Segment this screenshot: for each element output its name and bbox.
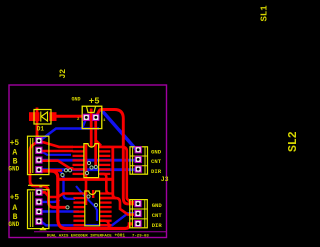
svg-text:GND: GND (152, 202, 163, 209)
IC U2 pins left (73, 192, 84, 226)
svg-text:A: A (12, 204, 17, 213)
svg-text:DIR: DIR (151, 168, 162, 175)
wire: blue SV2 pad4 to J3 lower CNT pad (41, 213, 134, 225)
connector X1 (power) outline (82, 106, 102, 128)
wire: red SV1 pad3 to IC1 pin6 (41, 161, 73, 169)
svg-text:+5: +5 (89, 96, 100, 106)
svg-text:GND: GND (8, 221, 19, 228)
wire: blue horizontal SV1 pad4 to J3 DIR (40, 168, 136, 171)
wire: red short vertical in IC2 (92, 190, 94, 198)
wire: red +5 trace from power pad1 around right side to J4 GND pad (96, 110, 134, 204)
wire: red GND inner arc from SV1 box corner (30, 142, 66, 208)
svg-text:+001: +001 (115, 233, 126, 238)
wire: red vertical power pad2 to IC1 notch (90, 109, 93, 148)
wire: blue SV1 pad2 to IC1 pin3 (41, 151, 71, 155)
connector SV2 outline (28, 190, 49, 229)
wire: blue bottom-layer trace from SV1 pad1 to power connector (40, 129, 99, 141)
wire: red vertical power pad1 into IC1 (96, 119, 101, 166)
wire: red vertical through IC bodies (85, 144, 88, 205)
svg-text:SL1: SL1 (260, 5, 270, 22)
board outline (9, 85, 167, 238)
wire: red SV1 pad4 left stub (41, 169, 62, 172)
connector X1 notch (87, 107, 96, 113)
wire: blue SV2 pad3 right (41, 210, 79, 212)
connector J3 upper pads (135, 147, 141, 173)
connector X1 pad 1 (93, 114, 99, 120)
svg-text:7-29-03: 7-29-03 (132, 234, 149, 238)
wire: red SV1 pad1 to IC1 pin1 (40, 141, 73, 147)
silk line between connectors (28, 184, 50, 186)
svg-text:GND: GND (8, 166, 19, 173)
diode D1 pads (29, 112, 40, 121)
svg-text:CNT: CNT (152, 212, 163, 219)
svg-text:2: 2 (77, 118, 80, 122)
svg-text:SL2: SL2 (287, 131, 300, 152)
diode D1 outline (34, 110, 51, 125)
IC U1 outline (84, 144, 99, 178)
wire: blue diagonal from power connector to J3 upper GND pad (101, 110, 137, 151)
wire: blue trace power pad2 down to bus (82, 118, 86, 129)
svg-text:D1: D1 (37, 126, 45, 133)
svg-text:DIR: DIR (152, 222, 163, 229)
silk tick below SV1 (39, 177, 42, 180)
wire: red trace D1 cathode down to SV1 pad1 (37, 108, 39, 141)
svg-text:GND: GND (72, 97, 81, 103)
wire: blue diagonal inside IC2 (76, 186, 97, 221)
wire: red SV2 pad1 to IC2 pin1 (41, 192, 74, 197)
connector SV2 key lines (30, 192, 33, 228)
wire: blue SV2 pad2 joining arc (41, 200, 60, 202)
connector J4 lower pads (135, 201, 141, 227)
svg-text:J2: J2 (59, 69, 68, 79)
wire: red GND outer arc from SV1 pad4 to bottom trace to J4 DIR (41, 171, 133, 229)
svg-text:1: 1 (103, 119, 106, 123)
connector J3 upper outline (130, 147, 148, 174)
svg-text:CNT: CNT (151, 158, 162, 165)
connector SV1 key lines (30, 138, 33, 173)
wire: red trace D1 anode to power connector pad2 (56, 115, 86, 118)
svg-text:A: A (12, 149, 17, 158)
connector SV2 pads (36, 189, 42, 224)
wire: red IC2 pin2 right to J4 (100, 198, 134, 228)
IC U1 pins right (99, 146, 110, 175)
vias (61, 161, 98, 209)
connector J4 lower outline (130, 200, 148, 228)
svg-text:DUAL AXIS ENCODER INTERFACE: DUAL AXIS ENCODER INTERFACE (47, 234, 112, 238)
wire: blue arc left mid down to IC2 pin2 (58, 170, 75, 199)
svg-text:+5: +5 (10, 140, 20, 148)
connector SV1 pads (36, 138, 42, 173)
svg-text:J3: J3 (161, 176, 169, 183)
wire: blue horizontal SV1 pad3 to J3 CNT (40, 159, 136, 162)
diode D1 symbol (41, 112, 48, 122)
svg-text:GND: GND (151, 149, 162, 156)
wire: red vertical from IC1 right area down to J4 CNT (113, 147, 116, 198)
wire: red thick stub at IC1 bottom right (58, 178, 113, 181)
silk dash (39, 186, 42, 188)
silk docu line above bottom text (34, 231, 166, 233)
wire: red from IC1 pin7 right down to J4 GND (100, 174, 110, 194)
wire: red IC1 pin1-right to vertical bus (99, 147, 134, 202)
wire: red SV1 pad2 to IC1 (41, 150, 73, 153)
connector SV1 outline (28, 136, 49, 174)
IC U2 pins right (100, 192, 112, 226)
SV2 bottom polarization tick (41, 227, 46, 230)
svg-text:+5: +5 (10, 195, 20, 203)
IC U2 outline (85, 191, 100, 226)
connector X1 pad 2 (83, 114, 89, 120)
IC U1 pins left (73, 146, 84, 175)
